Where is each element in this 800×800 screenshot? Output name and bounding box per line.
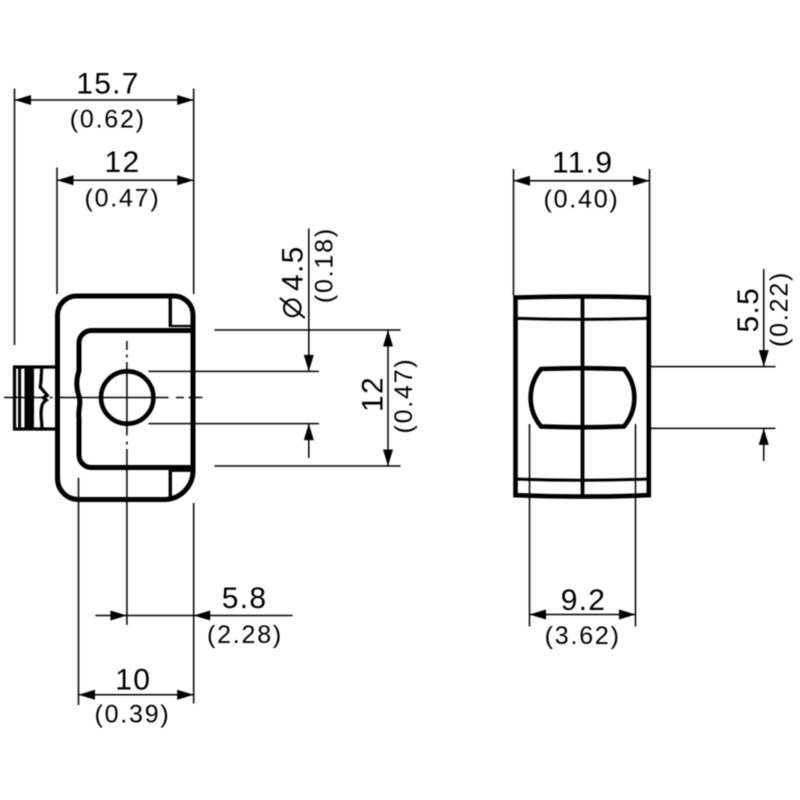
svg-text:10: 10 (115, 664, 151, 697)
svg-text:(0.22): (0.22) (766, 271, 794, 347)
dim 5.5: upper dimension line (763, 269, 765, 367)
dim dia4.5: rotated value label with diameter symbol (276, 245, 309, 318)
svg-text:5.5: 5.5 (732, 287, 765, 333)
dim 10: left extension line (78, 478, 80, 705)
side view: vertical middle edge (581, 296, 585, 497)
vertical centerline segment 2 (126, 362, 128, 436)
svg-text:15.7: 15.7 (76, 68, 140, 101)
mounting hole circle dia 4.5 (101, 371, 153, 423)
front view: bottom-right step horizontal edge (171, 470, 192, 472)
svg-text:(3.62): (3.62) (545, 622, 621, 650)
dim 11.9: left arrowhead (514, 176, 531, 186)
svg-text:5.8: 5.8 (222, 582, 268, 615)
front view: bottom-right step vertical edge (169, 469, 172, 499)
dim 11.9: left extension line (513, 169, 515, 295)
dim 15.7/12: shared right extension line (193, 89, 195, 295)
dim 10: right arrowhead (177, 690, 194, 700)
horizontal centerline segment 1 (4, 397, 46, 399)
dim 9.2: right arrowhead (619, 610, 636, 620)
dim 12 right: dimension line (387, 330, 389, 466)
dim 11.9: right extension line (649, 169, 651, 295)
dim 5.5: lower extension line (647, 427, 776, 429)
front view: top-right step vertical edge (169, 298, 172, 327)
dim 15.7: right arrowhead (177, 95, 194, 105)
svg-text:(0.18): (0.18) (310, 227, 338, 303)
dim 5.5: upper arrowhead pointing down (759, 350, 769, 367)
dim 12 right: upper extension line (215, 329, 401, 331)
dim 11.9: dimension line (514, 180, 650, 182)
svg-text:(2.28): (2.28) (207, 621, 283, 649)
dim dia4.5: upper arrowhead pointing down (304, 355, 314, 372)
dim 15.7: left arrowhead (15, 95, 32, 105)
svg-text:(0.47): (0.47) (84, 185, 160, 213)
dim dia4.5: rotated inch value label (310, 227, 338, 303)
dim 15.7: left extension line (14, 89, 16, 346)
front view: inner contour with wavy left edge (77, 331, 193, 468)
vertical centerline dash 2 (126, 442, 128, 445)
side view: upper step line (514, 318, 651, 319)
dim 9.2: left extension line (529, 424, 531, 627)
dim 12 right: rotated value label (357, 376, 390, 412)
front view: outer body outline (58, 296, 194, 500)
dim 12 right: top arrowhead (383, 330, 393, 347)
horizontal centerline segment 2 (60, 397, 169, 399)
dim 5.8/10: shared right extension line (193, 503, 195, 704)
side view: barrel shaped slot cutout (531, 368, 635, 427)
dim 5.5: upper extension line (647, 366, 776, 368)
vertical centerline dash 1 (126, 355, 128, 358)
dim dia4.5: lower dimension line (308, 424, 310, 458)
horizontal centerline dash 2 (176, 397, 184, 399)
dim 12 top: right arrowhead (177, 175, 194, 185)
vertical centerline segment 1 (126, 341, 128, 350)
svg-text:(0.47): (0.47) (390, 357, 418, 433)
dim 12 top: left extension line (56, 168, 58, 295)
dim 9.2: right extension line (635, 424, 637, 627)
side view: lower step line (514, 479, 651, 480)
dim 15.7: dimension line (15, 99, 194, 101)
svg-text:(0.40): (0.40) (543, 185, 619, 213)
vertical centerline segment 3 (extends to 5.8 dimension) (126, 449, 128, 625)
horizontal centerline dash (50, 397, 53, 399)
dim 5.5: lower dimension line (763, 428, 765, 461)
svg-text:12: 12 (105, 146, 141, 179)
svg-text:4.5: 4.5 (276, 245, 309, 291)
svg-text:(0.39): (0.39) (94, 700, 170, 728)
dim 9.2: left arrowhead (530, 610, 547, 620)
clamping screw stub inner edge line (18, 369, 21, 428)
dim 5.8: right arrowhead pointing left (194, 611, 211, 621)
svg-text:12: 12 (357, 376, 390, 412)
dim 12 right: lower extension line (215, 465, 401, 467)
clamping screw stub outline (15, 367, 58, 429)
dim dia4.5: upper tangent extension line (149, 370, 320, 372)
clamping screw stub break line (40, 367, 47, 430)
dim dia4.5: upper dimension line (308, 229, 310, 372)
dim 10: dimension line (79, 694, 194, 696)
dim 12 top: dimension line (57, 179, 194, 181)
clamping screw stub solid head band (25, 366, 35, 431)
dim 12 right: rotated inch value label (390, 357, 418, 433)
dim 9.2: dimension line (530, 614, 636, 616)
dim dia4.5: lower arrowhead pointing up (304, 424, 314, 441)
front view: top-right step horizontal edge (170, 325, 192, 327)
dim 5.5: lower arrowhead pointing up (759, 428, 769, 445)
dim 12 top: left arrowhead (57, 175, 74, 185)
svg-text:(0.62): (0.62) (70, 106, 146, 134)
dim 11.9: right arrowhead (633, 176, 650, 186)
side view: outer body outline (516, 297, 649, 497)
dim 5.8: left arrowhead pointing right (110, 611, 127, 621)
dim 10: left arrowhead (79, 690, 96, 700)
svg-text:11.9: 11.9 (552, 147, 613, 180)
dim 5.5: rotated value label (732, 287, 765, 333)
svg-text:9.2: 9.2 (561, 584, 607, 617)
dim 5.8: dimension line (95, 615, 292, 617)
horizontal centerline segment 3 (189, 397, 203, 399)
dim 5.5: rotated inch value label (766, 271, 794, 347)
dim dia4.5: lower tangent extension line (149, 423, 320, 425)
dim 12 right: bottom arrowhead (383, 450, 393, 467)
